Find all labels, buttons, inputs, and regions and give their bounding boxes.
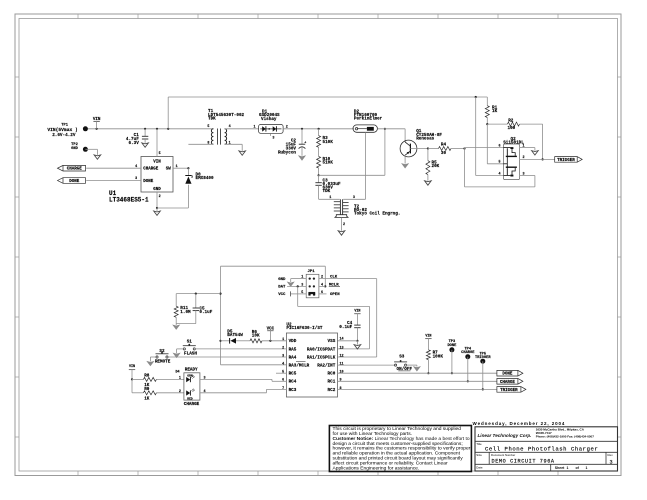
svg-text:LT3468ES5-1: LT3468ES5-1 — [109, 197, 149, 204]
svg-text:4: 4 — [282, 363, 284, 367]
svg-text:VIN: VIN — [153, 161, 161, 165]
svg-text:R4: R4 — [441, 143, 447, 148]
pin 5 stub — [276, 372, 286, 374]
svg-text:DEMO CIRCUIT 796A: DEMO CIRCUIT 796A — [492, 459, 555, 465]
wire — [486, 124, 488, 164]
svg-text:2: 2 — [159, 195, 161, 199]
wire — [85, 148, 97, 150]
connector DONE input — [58, 178, 86, 184]
svg-text:GND: GND — [153, 188, 161, 192]
pin 10 wire RC0 — [338, 372, 497, 374]
node MCLR loop — [324, 266, 326, 286]
svg-text:2.6V-4.2V: 2.6V-4.2V — [52, 133, 76, 138]
svg-text:RC4: RC4 — [289, 380, 297, 385]
svg-text:DAT: DAT — [278, 285, 286, 289]
svg-text:ON/OFF: ON/OFF — [397, 367, 413, 372]
svg-text:Wednesday, December 22, 2004: Wednesday, December 22, 2004 — [473, 421, 566, 426]
pin 8 wire RC2 — [338, 388, 497, 390]
switch S3 ON/OFF — [338, 364, 396, 366]
connector TRIGGER output — [555, 157, 583, 163]
resistor R1 — [486, 97, 488, 106]
resistor R2 — [487, 123, 507, 125]
svg-text:Cell Phone Photoflash Charger: Cell Phone Photoflash Charger — [485, 445, 598, 452]
svg-text:4: 4 — [135, 165, 137, 169]
wire — [225, 143, 243, 145]
svg-text:2: 2 — [179, 390, 181, 394]
svg-text:Title: Title — [476, 442, 482, 446]
svg-text:5: 5 — [207, 125, 209, 129]
svg-text:0.1uF: 0.1uF — [199, 310, 212, 315]
svg-text:JP1: JP1 — [308, 270, 316, 274]
svg-text:Rev: Rev — [608, 453, 614, 457]
svg-text:5: 5 — [282, 371, 284, 375]
svg-text:13: 13 — [340, 346, 344, 350]
svg-text:20K: 20K — [432, 164, 440, 169]
pin 4 wire MCLR — [319, 285, 325, 287]
pin 5 wire VCC — [291, 293, 307, 295]
svg-text:3: 3 — [282, 354, 284, 358]
svg-text:Renesas: Renesas — [416, 136, 434, 141]
svg-text:10K: 10K — [252, 334, 260, 339]
resistor R11 — [176, 293, 220, 295]
svg-text:1.0M: 1.0M — [180, 310, 191, 315]
svg-text:DONE: DONE — [502, 373, 513, 377]
svg-text:VIN: VIN — [93, 118, 101, 122]
svg-text:6: 6 — [321, 291, 323, 295]
pin 3 wire to RC4 — [200, 378, 272, 380]
svg-text:4: 4 — [204, 390, 206, 394]
svg-text:EMX8400: EMX8400 — [196, 176, 214, 181]
pin 5 — [156, 129, 158, 157]
svg-text:SW: SW — [166, 168, 172, 172]
svg-text:3: 3 — [272, 136, 274, 140]
svg-text:1: 1 — [253, 125, 255, 129]
svg-text:OPEN: OPEN — [330, 293, 340, 297]
svg-text:5: 5 — [499, 161, 501, 165]
diode D0 EMX8400 — [185, 175, 191, 177]
svg-text:1: 1 — [282, 338, 284, 342]
capacitor C3 — [318, 175, 320, 182]
svg-text:VIN: VIN — [129, 365, 135, 369]
svg-text:Phone: (408)432-1900 Fax: (408: Phone: (408)432-1900 Fax: (408)434-0507 — [536, 434, 595, 438]
wire — [451, 148, 465, 150]
svg-text:2: 2 — [282, 346, 284, 350]
wire — [406, 364, 417, 366]
capacitor C2 — [301, 129, 303, 144]
svg-text:R2: R2 — [508, 118, 514, 123]
svg-text:RED: RED — [187, 397, 193, 400]
pin 1 wire GND — [291, 278, 307, 280]
pin 2 wire — [156, 192, 158, 208]
pin 9 wire RC1 — [338, 380, 497, 382]
pin 4 wire — [86, 167, 141, 169]
pin 3 RA4 wire — [167, 356, 286, 358]
svg-text:DONE: DONE — [447, 344, 457, 348]
node lamp cathode wire — [319, 174, 385, 176]
svg-text:1: 1 — [229, 142, 231, 146]
wire lamp trigger — [365, 132, 367, 199]
wire — [318, 168, 320, 175]
svg-text:1: 1 — [329, 196, 331, 200]
svg-text:TRIGGER: TRIGGER — [557, 159, 575, 163]
ground — [173, 353, 180, 357]
pin 2 wire CLK — [319, 278, 377, 280]
svg-text:1K: 1K — [144, 397, 150, 402]
svg-text:GND: GND — [71, 147, 78, 151]
pin 4 wire to RC3 — [200, 392, 267, 394]
svg-text:D4: D4 — [175, 370, 179, 374]
node VIN rail — [85, 128, 213, 130]
svg-text:6: 6 — [499, 144, 501, 148]
resistor R5 — [427, 147, 429, 149]
wire — [225, 128, 259, 130]
svg-text:VDD: VDD — [289, 339, 297, 344]
transformer T2 RO-02 trigger coil — [319, 198, 340, 200]
test point TP2 — [83, 147, 88, 152]
svg-text:GND: GND — [278, 278, 286, 282]
pin 2 RA5 wire — [194, 348, 286, 350]
svg-text:8: 8 — [207, 142, 209, 146]
pin 2 wire — [520, 158, 555, 160]
svg-text:510K: 510K — [323, 140, 334, 145]
resistor R4 — [428, 148, 439, 150]
svg-text:3: 3 — [610, 459, 613, 465]
wire — [520, 123, 543, 125]
svg-text:Vishay: Vishay — [261, 117, 277, 122]
svg-text:VIN: VIN — [354, 310, 360, 314]
svg-text:RA5: RA5 — [289, 347, 297, 352]
pin 4 wire — [475, 97, 477, 176]
pin 3 wire — [520, 175, 535, 177]
svg-text:6.3V: 6.3V — [128, 141, 139, 146]
wire — [150, 356, 157, 358]
pin 3 wire DAT — [287, 285, 306, 287]
test point TP1 — [83, 126, 88, 131]
resistor R9 — [131, 379, 133, 392]
pin 3 wire — [86, 180, 141, 182]
svg-text:RC5: RC5 — [289, 372, 297, 377]
resistor R8 — [132, 378, 143, 380]
svg-text:11: 11 — [340, 363, 344, 367]
svg-text:Document Number: Document Number — [491, 453, 515, 457]
svg-text:VSS: VSS — [328, 339, 336, 344]
pin 1 wire — [520, 147, 535, 149]
connector CHARGE output — [497, 379, 523, 385]
pin 14 wire VSS — [338, 340, 358, 342]
svg-text:TDK: TDK — [323, 189, 331, 194]
svg-text:BAT54W: BAT54W — [227, 333, 243, 338]
ground — [354, 345, 361, 349]
wire — [188, 143, 213, 145]
svg-text:Tokyo Coil Engrng.: Tokyo Coil Engrng. — [354, 212, 400, 217]
svg-text:R8: R8 — [144, 373, 150, 378]
svg-text:0.1uF: 0.1uF — [339, 325, 352, 330]
ground — [414, 367, 421, 371]
ground — [173, 325, 180, 329]
wire — [177, 348, 185, 350]
ground — [338, 231, 345, 235]
svg-text:Sheet: Sheet — [555, 466, 565, 470]
ground — [532, 151, 539, 155]
ground — [402, 164, 409, 168]
ground — [239, 151, 246, 155]
svg-text:TRIGGER: TRIGGER — [500, 389, 518, 393]
wire — [157, 207, 188, 209]
svg-text:Applications Engineering for a: Applications Engineering for assistance. — [333, 466, 420, 472]
svg-text:3: 3 — [204, 376, 206, 380]
ground — [299, 156, 306, 160]
wire — [187, 168, 189, 175]
svg-text:9: 9 — [340, 379, 342, 383]
svg-text:RA4: RA4 — [289, 355, 297, 360]
ground — [147, 361, 154, 365]
resistor R6 — [250, 339, 262, 343]
IC U1 LT3468ES5-1 charger — [141, 157, 173, 193]
svg-text:RC1: RC1 — [328, 380, 336, 385]
svg-text:1: 1 — [179, 376, 181, 380]
ground — [425, 181, 432, 185]
svg-text:S3: S3 — [399, 355, 405, 360]
wire to Q2 gate pin 6 — [464, 147, 466, 150]
pin 1 SW wire — [173, 167, 188, 169]
svg-text:RC0: RC0 — [328, 372, 336, 377]
svg-text:PerkinElmer: PerkinElmer — [354, 117, 383, 122]
ground — [154, 211, 161, 215]
svg-text:1K: 1K — [492, 109, 498, 114]
svg-text:R9: R9 — [144, 387, 150, 392]
svg-text:3: 3 — [135, 177, 137, 181]
wire — [377, 128, 405, 130]
svg-text:CLK: CLK — [330, 276, 338, 280]
resistor R3 — [318, 129, 320, 136]
svg-text:4: 4 — [499, 172, 501, 176]
svg-text:1: 1 — [586, 466, 588, 470]
svg-text:1: 1 — [176, 165, 178, 169]
svg-text:Rubycon: Rubycon — [278, 150, 296, 155]
svg-text:6: 6 — [282, 379, 284, 383]
notice box — [329, 426, 471, 472]
svg-text:7: 7 — [282, 387, 284, 391]
ground — [287, 282, 294, 286]
power symbol VIN — [93, 121, 99, 123]
svg-text:10: 10 — [340, 371, 344, 375]
wire — [318, 147, 320, 156]
svg-text:8: 8 — [340, 387, 342, 391]
svg-text:REMOTE: REMOTE — [155, 360, 171, 365]
connector CHARGE input — [58, 165, 86, 171]
svg-text:DONE: DONE — [143, 180, 154, 184]
svg-text:1: 1 — [523, 144, 525, 148]
svg-text:RC2: RC2 — [328, 388, 336, 393]
svg-text:510K: 510K — [323, 161, 334, 166]
svg-text:2: 2 — [523, 156, 525, 160]
title block — [475, 427, 618, 471]
resistor R10 — [317, 156, 321, 168]
svg-text:VCC: VCC — [278, 293, 286, 297]
svg-text:Size: Size — [476, 453, 482, 457]
svg-text:5: 5 — [159, 152, 161, 156]
svg-text:RA3/MCLR: RA3/MCLR — [289, 363, 310, 368]
svg-text:READY: READY — [185, 367, 198, 372]
svg-text:14: 14 — [340, 338, 344, 342]
svg-text:CHARGE: CHARGE — [143, 168, 159, 172]
svg-text:CHARGE: CHARGE — [500, 381, 516, 385]
svg-text:PIC16F630-I/ST: PIC16F630-I/ST — [286, 326, 323, 331]
pin 2 wire — [341, 217, 343, 230]
svg-text:Si1501DL: Si1501DL — [503, 141, 524, 146]
connector DONE output — [497, 370, 523, 376]
svg-text:3: 3 — [523, 172, 525, 176]
svg-text:RC3: RC3 — [289, 388, 297, 393]
capacitor C4 — [354, 324, 360, 326]
svg-text:CHARGE: CHARGE — [67, 168, 83, 172]
svg-text:VIN: VIN — [425, 335, 431, 339]
connector TRIGGER output 2 — [497, 387, 526, 393]
pin 6 wire OPEN — [319, 293, 327, 295]
svg-text:2: 2 — [343, 223, 345, 227]
node HV rail — [283, 128, 354, 130]
capacitor C1 — [144, 129, 146, 137]
svg-text:CHARGE: CHARGE — [184, 402, 200, 407]
ground — [94, 155, 101, 159]
svg-text:30: 30 — [441, 151, 447, 156]
svg-text:Date:: Date: — [476, 466, 483, 470]
wire DAT to pin 13 — [297, 286, 299, 306]
svg-text:100K: 100K — [433, 354, 444, 359]
ground — [142, 143, 149, 147]
svg-text:FLASH: FLASH — [184, 351, 197, 356]
svg-text:RA2/INT: RA2/INT — [317, 363, 335, 368]
svg-text:DONE: DONE — [69, 180, 80, 184]
svg-text:12: 12 — [340, 354, 344, 358]
svg-text:TDK: TDK — [208, 116, 216, 121]
resistor R7 — [426, 350, 430, 360]
svg-text:+: + — [304, 141, 306, 145]
svg-text:RA1/ICSPCLK: RA1/ICSPCLK — [307, 355, 336, 360]
capacitor C5 — [195, 294, 197, 308]
node top VIN feed rail — [167, 97, 169, 129]
svg-text:1: 1 — [567, 466, 569, 470]
svg-text:Linear Technology Corp.: Linear Technology Corp. — [478, 433, 532, 438]
svg-text:100: 100 — [508, 126, 516, 131]
svg-text:5: 5 — [301, 291, 303, 295]
svg-text:RA0/ICSPDAT: RA0/ICSPDAT — [307, 347, 336, 352]
